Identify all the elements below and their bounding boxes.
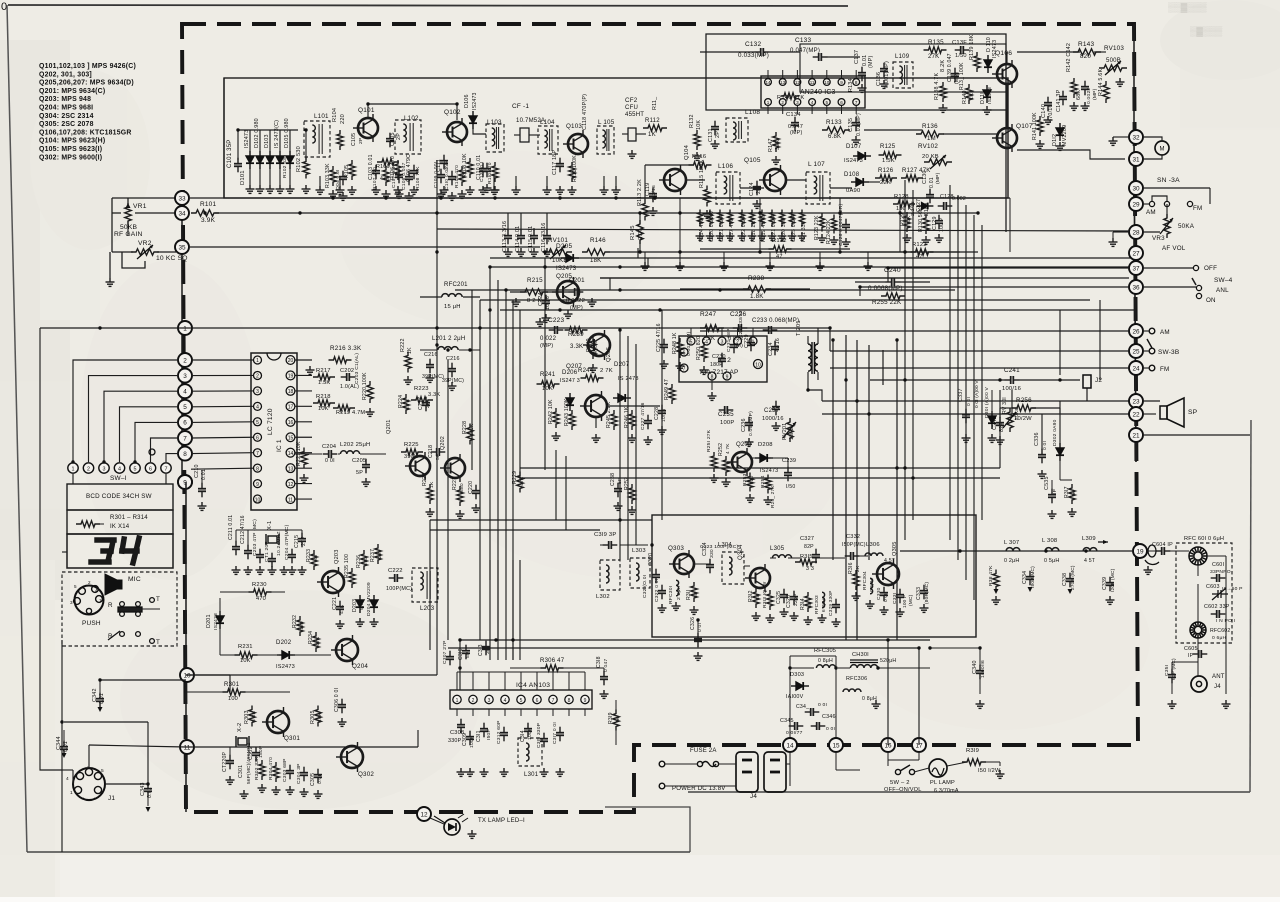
svg-text:L 308: L 308 bbox=[1042, 538, 1057, 544]
IF transformer L104 bbox=[538, 126, 558, 154]
wire bbox=[1166, 204, 1168, 218]
svg-text:J4: J4 bbox=[1214, 684, 1221, 690]
IF transformer L109 bbox=[893, 62, 913, 88]
svg-text:3: 3 bbox=[183, 373, 187, 380]
svg-text:0 0I (A)00 V: 0 0I (A)00 V bbox=[974, 380, 980, 408]
svg-text:13: 13 bbox=[780, 80, 786, 85]
resistor R238 bbox=[743, 286, 771, 292]
wire vertical bundle bbox=[845, 335, 847, 640]
svg-text:0.01: 0.01 bbox=[929, 177, 935, 188]
wire bbox=[560, 667, 604, 669]
resistor R132 bbox=[694, 130, 700, 150]
capacitor C134 bbox=[791, 117, 799, 132]
wire vertical bbox=[479, 300, 481, 640]
svg-text:1: 1 bbox=[456, 698, 459, 704]
wire vertical bus ext bbox=[519, 560, 521, 660]
wire IC1 pin 15 stub bbox=[295, 436, 312, 438]
ground bbox=[1081, 102, 1090, 110]
svg-text:18K: 18K bbox=[590, 258, 601, 264]
svg-text:CFU: CFU bbox=[625, 105, 638, 111]
wire Q107 to node31 bbox=[1017, 150, 1125, 159]
power terminal - bbox=[659, 783, 665, 789]
svg-text:RFC304: RFC304 bbox=[862, 571, 868, 590]
ground bbox=[872, 700, 881, 708]
svg-text:19: 19 bbox=[288, 374, 294, 380]
ground bbox=[690, 606, 699, 614]
wire bbox=[827, 56, 860, 58]
ground bbox=[672, 602, 681, 610]
ground bbox=[491, 186, 500, 194]
wire IC1 pin 16 stub bbox=[295, 421, 312, 423]
svg-text:SN -3A: SN -3A bbox=[1157, 177, 1180, 184]
resistor R221 bbox=[301, 448, 307, 469]
svg-text:R304 470: R304 470 bbox=[268, 757, 274, 780]
svg-text:R123 22K: R123 22K bbox=[814, 215, 820, 240]
wire vertical right bbox=[904, 180, 906, 540]
resistor R237 bbox=[375, 544, 381, 564]
wire bbox=[867, 252, 869, 262]
svg-text:22: 22 bbox=[1132, 411, 1140, 418]
svg-text:R305: R305 bbox=[310, 710, 316, 724]
svg-text:R235 100: R235 100 bbox=[344, 554, 350, 578]
ground bbox=[798, 232, 807, 240]
resistor R230 bbox=[249, 589, 272, 595]
capacitor C234 bbox=[771, 341, 779, 356]
svg-text:▒▒▓▒▒▒: ▒▒▓▒▒▒ bbox=[1168, 2, 1207, 13]
transistor Q203 bbox=[317, 567, 344, 597]
svg-text:32: 32 bbox=[1132, 134, 1140, 141]
svg-text:R142 C142: R142 C142 bbox=[1066, 43, 1072, 72]
wire bbox=[887, 268, 889, 282]
svg-text:Q207: Q207 bbox=[566, 363, 582, 370]
capacitor C115 bbox=[530, 230, 538, 245]
junction bbox=[638, 211, 641, 214]
wire IC1 pin 18 stub bbox=[295, 390, 312, 392]
svg-text:20: 20 bbox=[288, 358, 294, 364]
wire pin lead bbox=[767, 105, 769, 114]
capacitor C231 bbox=[730, 339, 738, 354]
transistor Q302 bbox=[336, 742, 363, 772]
wire node4 to IC1 bbox=[191, 390, 254, 392]
svg-text:10K: 10K bbox=[318, 406, 329, 412]
capacitor C602 bbox=[1211, 610, 1226, 618]
pin 10 IC1 bbox=[254, 495, 262, 503]
wire Q104 collector bbox=[686, 179, 705, 181]
wire bbox=[72, 770, 74, 784]
svg-text:14: 14 bbox=[786, 742, 794, 749]
wire pin lead bbox=[752, 328, 754, 337]
wire bbox=[459, 640, 461, 690]
wire bbox=[546, 176, 548, 186]
wire bbox=[744, 565, 750, 567]
capacitor C236 bbox=[745, 417, 753, 432]
resistor R314 bbox=[805, 592, 811, 612]
svg-text:82P: 82P bbox=[804, 544, 814, 550]
resistor R146b bbox=[781, 93, 799, 99]
wire bbox=[836, 769, 860, 771]
ground bbox=[300, 474, 309, 482]
wire IC4 pin 6 top stub bbox=[536, 672, 538, 690]
trimmer CT2 bbox=[226, 755, 234, 770]
ground bbox=[628, 434, 637, 442]
svg-text:7: 7 bbox=[552, 698, 555, 704]
ghost bleedthrough marks bbox=[1168, 2, 1223, 37]
potentiometer RV102 bbox=[924, 159, 952, 165]
resistor R133 bbox=[822, 127, 850, 133]
node 5 bbox=[178, 400, 192, 414]
wire node2 to IC1 bbox=[191, 359, 254, 361]
svg-text:RV102: RV102 bbox=[918, 143, 938, 150]
ground bbox=[758, 232, 767, 240]
wire bbox=[493, 176, 495, 186]
junction bbox=[650, 543, 653, 546]
ground bbox=[842, 238, 851, 246]
junction bbox=[446, 348, 449, 351]
junction bbox=[758, 211, 761, 214]
svg-text:47: 47 bbox=[776, 254, 783, 260]
svg-text:8: 8 bbox=[855, 80, 858, 85]
capacitor C238 bbox=[614, 483, 622, 498]
wire bbox=[622, 133, 628, 135]
wire bbox=[520, 213, 522, 231]
svg-text:IS2473: IS2473 bbox=[244, 130, 250, 148]
diode D206 bbox=[566, 393, 574, 411]
wire bbox=[1019, 379, 1080, 381]
wire bbox=[459, 349, 480, 351]
wire bbox=[63, 730, 65, 742]
junction bbox=[998, 378, 1001, 381]
junction bbox=[1044, 549, 1047, 552]
IC3 section box bbox=[706, 34, 1006, 110]
svg-text:100: 100 bbox=[228, 696, 238, 702]
svg-text:C330: C330 bbox=[876, 587, 882, 600]
junction bbox=[98, 326, 101, 329]
wire bbox=[711, 380, 713, 390]
junction bbox=[898, 211, 901, 214]
svg-text:C60I: C60I bbox=[1212, 562, 1224, 568]
ground bbox=[226, 776, 235, 784]
wire IC4 pin 7 top stub bbox=[552, 672, 554, 690]
svg-text:6: 6 bbox=[536, 698, 539, 704]
wire switch bbox=[1152, 196, 1167, 201]
switch SW-1 contact 4 bbox=[114, 463, 124, 473]
ground bbox=[568, 186, 577, 194]
wire bbox=[1113, 231, 1129, 233]
svg-text:C344: C344 bbox=[56, 736, 62, 750]
wire bbox=[533, 228, 535, 231]
svg-text:3: 3 bbox=[488, 698, 491, 704]
svg-text:C211 0.01: C211 0.01 bbox=[228, 515, 234, 540]
junction bbox=[858, 285, 861, 288]
junction bbox=[653, 196, 656, 199]
svg-text:AN240 IC3: AN240 IC3 bbox=[800, 89, 836, 96]
wire bbox=[835, 752, 837, 770]
svg-text:IAI00V: IAI00V bbox=[786, 694, 804, 700]
svg-text:C133: C133 bbox=[795, 37, 811, 44]
pin 6 IC4 bbox=[533, 695, 541, 703]
wire IC1 pin 14 stub bbox=[295, 452, 312, 454]
svg-text:R223: R223 bbox=[414, 386, 429, 392]
capacitor C601 bbox=[1211, 574, 1226, 582]
wire bbox=[999, 408, 1001, 418]
ground bbox=[703, 210, 712, 218]
wire bbox=[700, 248, 773, 250]
wire bbox=[900, 281, 930, 283]
ground bbox=[480, 768, 489, 776]
wire vertical bundle bbox=[856, 340, 858, 640]
transistor Q201 bbox=[405, 452, 430, 480]
svg-text:R115 100K: R115 100K bbox=[699, 159, 705, 188]
pin 3 IC2 bbox=[718, 337, 726, 345]
resistor R233 bbox=[311, 550, 317, 570]
svg-text:2: 2 bbox=[183, 357, 187, 364]
resistor R256 bbox=[1012, 405, 1036, 411]
wire bbox=[786, 763, 790, 765]
svg-text:C105: C105 bbox=[351, 133, 357, 146]
wire pin lead bbox=[472, 709, 474, 716]
resistor C121 bbox=[717, 210, 722, 227]
svg-text:T: T bbox=[156, 639, 160, 646]
ground bbox=[589, 364, 598, 372]
svg-text:C118 470P(P): C118 470P(P) bbox=[582, 94, 588, 130]
resistor R144 bbox=[1103, 81, 1109, 103]
capacitor C114 bbox=[517, 230, 525, 245]
wire bbox=[615, 728, 617, 745]
wire vertical bbox=[635, 344, 637, 545]
transistor Q202 bbox=[440, 454, 465, 482]
junction bbox=[758, 250, 761, 253]
svg-text:1: 1 bbox=[72, 466, 75, 472]
resistor R128 bbox=[893, 201, 915, 207]
ground bbox=[426, 508, 435, 516]
wire bus crystal bbox=[236, 529, 302, 531]
svg-text:C201: C201 bbox=[569, 277, 585, 284]
capacitor C218 bbox=[431, 448, 446, 456]
wire bbox=[1060, 479, 1072, 481]
resistor R217 bbox=[313, 374, 335, 380]
wire bbox=[112, 212, 121, 214]
svg-text:C326: C326 bbox=[690, 617, 696, 630]
wire pin lead bbox=[826, 70, 828, 79]
svg-text:R302 33K: R302 33K bbox=[254, 756, 260, 780]
wire step bbox=[647, 258, 649, 268]
svg-text:L109: L109 bbox=[895, 54, 910, 60]
svg-text:100P(MC): 100P(MC) bbox=[386, 586, 412, 592]
junction bbox=[903, 466, 906, 469]
svg-text:C141 3P: C141 3P bbox=[1056, 89, 1062, 112]
ground bbox=[649, 207, 658, 215]
pin 8 IC1 bbox=[254, 464, 262, 472]
pin 4 IC1 bbox=[254, 402, 262, 410]
capacitor C346 bbox=[811, 722, 826, 730]
svg-text:R144 5.6K: R144 5.6K bbox=[1098, 69, 1104, 96]
svg-text:T: T bbox=[156, 596, 160, 603]
node 22 bbox=[1129, 407, 1143, 421]
wire bbox=[436, 610, 438, 660]
wire bbox=[1209, 188, 1211, 204]
junction bbox=[886, 638, 889, 641]
svg-text:R3I4: R3I4 bbox=[800, 598, 806, 610]
capacitor C201 bbox=[569, 288, 584, 296]
transistor Q303 bbox=[669, 550, 694, 578]
wire bbox=[105, 783, 148, 785]
capacitor C326 bbox=[694, 633, 702, 648]
ground bbox=[490, 186, 499, 194]
wire from motor bbox=[1143, 155, 1162, 159]
svg-text:4: 4 bbox=[705, 339, 708, 345]
wire bbox=[999, 762, 1001, 766]
ground bbox=[517, 248, 526, 256]
svg-text:7: 7 bbox=[855, 100, 858, 105]
svg-text:CF -1: CF -1 bbox=[512, 103, 529, 110]
svg-text:0 022: 0 022 bbox=[540, 336, 557, 342]
pilot lamp PL bbox=[929, 759, 947, 777]
svg-text:C332: C332 bbox=[846, 534, 860, 540]
pin 14 IC3 bbox=[765, 79, 772, 86]
junction bbox=[435, 343, 438, 346]
svg-text:7: 7 bbox=[165, 466, 168, 472]
svg-text:13: 13 bbox=[288, 466, 294, 472]
wire node1 bus bbox=[40, 327, 830, 329]
arrow C344 bbox=[62, 753, 67, 758]
pin 1 IC4 bbox=[453, 695, 461, 703]
ground bbox=[370, 618, 379, 626]
capacitor C317 bbox=[556, 727, 564, 742]
wire bbox=[147, 722, 149, 784]
wire bus bbox=[600, 277, 980, 279]
resistor C122 bbox=[739, 210, 744, 227]
wire bbox=[930, 647, 980, 649]
svg-text:R112: R112 bbox=[645, 118, 660, 124]
pin 1 IC1 bbox=[254, 356, 262, 364]
svg-text:AF VOL: AF VOL bbox=[1162, 245, 1186, 252]
svg-text:8: 8 bbox=[568, 698, 571, 704]
diode D303 bbox=[791, 682, 809, 690]
inductor L302 bbox=[606, 565, 609, 583]
svg-text:0 0I: 0 0I bbox=[1042, 441, 1048, 450]
resistor R302 bbox=[259, 760, 265, 780]
svg-text:L 307: L 307 bbox=[1004, 540, 1019, 546]
svg-text:37: 37 bbox=[1132, 265, 1140, 272]
svg-text:C116 33/16: C116 33/16 bbox=[541, 223, 547, 252]
svg-text:100 P: 100 P bbox=[939, 217, 945, 232]
node 14 bbox=[783, 738, 797, 752]
ground bbox=[448, 192, 457, 200]
junction bbox=[435, 326, 438, 329]
wire IC4 pin 2 top stub bbox=[472, 672, 474, 690]
capacitor C107 bbox=[395, 169, 403, 184]
junction bbox=[618, 288, 621, 291]
svg-text:50KB: 50KB bbox=[120, 224, 137, 231]
svg-text:MIC: MIC bbox=[128, 576, 141, 583]
junction bbox=[304, 128, 307, 131]
wire bbox=[868, 181, 880, 183]
svg-text:D208: D208 bbox=[758, 442, 773, 448]
pin 11 IC1 bbox=[286, 495, 295, 504]
ground bbox=[660, 360, 669, 368]
ground bbox=[1056, 142, 1065, 150]
svg-text:RFC306: RFC306 bbox=[846, 676, 867, 682]
pin 6 IC1 bbox=[254, 433, 262, 441]
junction bbox=[435, 211, 438, 214]
wire bbox=[1041, 436, 1043, 450]
wire IC1 pin 20 stub bbox=[295, 359, 312, 361]
wire pin lead bbox=[811, 70, 813, 79]
svg-text:3.3K: 3.3K bbox=[428, 392, 440, 398]
svg-text:12: 12 bbox=[288, 482, 294, 488]
wire bbox=[855, 281, 886, 283]
wire vertical bus ext bbox=[512, 560, 514, 660]
capacitor C227 bbox=[644, 415, 652, 430]
receiver section box bbox=[224, 78, 1008, 198]
capacitor C320 bbox=[652, 569, 660, 584]
svg-text:2P: 2P bbox=[715, 131, 721, 138]
wire node28 bus bbox=[437, 229, 1129, 231]
switch SW-1 extra contact bbox=[149, 449, 155, 455]
svg-text:29: 29 bbox=[1132, 201, 1140, 208]
wire bbox=[817, 328, 819, 336]
ground bbox=[983, 106, 992, 114]
page frame right bbox=[1250, 420, 1251, 792]
svg-text:4: 4 bbox=[504, 698, 507, 704]
node 28 bbox=[1129, 225, 1143, 239]
wire box right edge bbox=[1005, 110, 1007, 232]
transistor Q106 bbox=[992, 60, 1017, 88]
svg-text:M: M bbox=[1160, 147, 1165, 153]
wire bbox=[99, 680, 101, 694]
pin 2 IC3 bbox=[779, 99, 786, 106]
wire bbox=[790, 667, 814, 669]
svg-text:0A90: 0A90 bbox=[846, 188, 861, 194]
ground bbox=[246, 185, 255, 193]
junction bbox=[876, 666, 879, 669]
svg-text:7: 7 bbox=[183, 435, 187, 442]
pin 5 IC4 bbox=[517, 695, 525, 703]
seven-segment digit 4 bbox=[122, 538, 139, 563]
node 19 bbox=[1133, 544, 1147, 558]
wire bus to TX bbox=[460, 639, 930, 641]
capacitor C336 bbox=[1038, 449, 1046, 464]
ground bbox=[832, 618, 841, 626]
wire vertical bus bbox=[544, 258, 546, 470]
ground bbox=[268, 566, 277, 574]
wire bbox=[279, 168, 281, 185]
potentiometer VR3 bbox=[1164, 214, 1170, 238]
capacitor C116 bbox=[543, 230, 551, 245]
crystal filter CF-1 bbox=[520, 128, 529, 142]
wire vertical bus bbox=[965, 205, 967, 580]
svg-text:D302 0A90: D302 0A90 bbox=[1052, 419, 1058, 446]
svg-text:3 3: 3 3 bbox=[806, 566, 814, 572]
seven-segment digit 3 bbox=[91, 540, 114, 562]
wire bbox=[201, 470, 203, 484]
pin 4 IC2 bbox=[703, 337, 711, 345]
node 9 bbox=[178, 475, 192, 489]
wire bbox=[808, 390, 822, 401]
wire SW-1 pole 6 bbox=[151, 438, 180, 462]
diode D108 bbox=[851, 178, 869, 186]
wire bbox=[555, 450, 557, 520]
wire bbox=[147, 796, 149, 806]
svg-text:Q101,102,103 ] MPS 9426(C): Q101,102,103 ] MPS 9426(C) bbox=[39, 63, 136, 70]
wire bbox=[141, 608, 160, 610]
capacitor C309 bbox=[466, 731, 474, 746]
diode D109 bbox=[917, 203, 934, 210]
svg-text:C346: C346 bbox=[822, 714, 836, 720]
svg-text:R106: R106 bbox=[376, 164, 390, 170]
svg-text:R228: R228 bbox=[462, 421, 468, 434]
wire bbox=[700, 51, 755, 53]
